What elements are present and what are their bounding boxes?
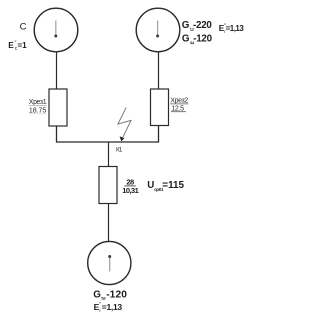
- reactor Xrez1: [49, 89, 67, 126]
- svg-text:G: G: [182, 20, 190, 31]
- label Eg''=1,13 (top right): [219, 23, 245, 35]
- svg-text:″: ″: [99, 302, 101, 308]
- label G3,4-120: [182, 34, 213, 45]
- generator G5,6 (bottom circle): [88, 241, 131, 284]
- label Xrez2 12.5: [170, 97, 188, 112]
- wire Xrez1 down to bus: [57, 126, 109, 142]
- system source C (top-left circle): [34, 8, 78, 52]
- svg-text:18.75: 18.75: [29, 107, 46, 114]
- svg-text:G: G: [182, 34, 190, 45]
- generator G1,2 G3,4 (top-right circle): [136, 8, 180, 52]
- svg-text:=1,13: =1,13: [226, 24, 245, 33]
- arrow inside C: [54, 21, 57, 38]
- svg-text:12.5: 12.5: [171, 105, 184, 112]
- label Xrez1 18.75: [29, 99, 47, 114]
- svg-text:=1: =1: [17, 41, 27, 50]
- svg-text:=1,13: =1,13: [102, 302, 123, 312]
- svg-text:Хрез1: Хрез1: [29, 99, 47, 106]
- label 28/10,31: [122, 177, 138, 195]
- fault lightning arrow at K1: [118, 107, 131, 141]
- svg-text:″: ″: [15, 41, 17, 47]
- wire G1,2 to reactor Xrez2: [158, 52, 160, 89]
- arrow inside G1,2: [156, 21, 159, 38]
- label Ec''=1: [8, 41, 27, 53]
- svg-text:G: G: [93, 289, 101, 300]
- wire reactor to generator G5,6: [108, 204, 110, 242]
- svg-text:-220: -220: [193, 20, 212, 31]
- svg-text:-120: -120: [193, 34, 212, 45]
- svg-text:U: U: [147, 180, 154, 191]
- label Eg''=1,13 (bottom): [94, 302, 123, 314]
- label UsrK1=115: [147, 180, 184, 192]
- label G1,2-220: [182, 20, 213, 31]
- label G5,6-120: [93, 289, 127, 300]
- wire C to reactor Xrez1: [56, 52, 58, 89]
- svg-text:C: C: [20, 21, 27, 32]
- wire bus to reactor 28/10,31: [108, 142, 110, 167]
- reactor Xrez2: [151, 89, 169, 126]
- svg-text:-120: -120: [106, 289, 127, 300]
- wire Xrez2 down to bus: [109, 126, 159, 143]
- svg-text:E: E: [8, 41, 14, 50]
- svg-text:=115: =115: [162, 180, 184, 191]
- arrow inside G5,6: [108, 255, 111, 272]
- svg-text:10,31: 10,31: [122, 186, 138, 195]
- reactor 28/10,31: [99, 167, 117, 204]
- svg-text:Хрез2: Хрез2: [170, 97, 188, 104]
